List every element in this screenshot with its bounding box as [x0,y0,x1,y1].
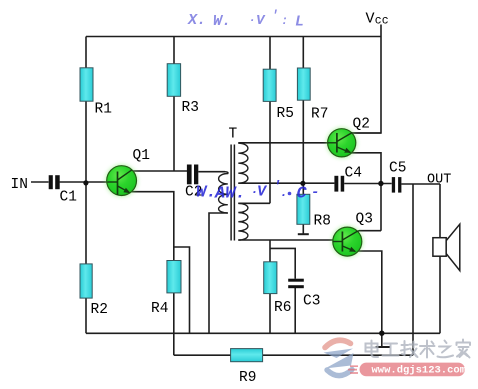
transistor Q1 [106,165,138,197]
svg-text:R3: R3 [182,100,199,116]
wire Q1 collector to C2 [131,170,187,172]
wire C3 branch from R6 column [270,248,295,278]
resistor R3 [167,64,180,97]
svg-text:V: V [256,13,266,29]
svg-text:Q1: Q1 [133,148,150,164]
wire Q3 collector to midpoint column [359,230,381,232]
wire R7 bottom to node B [302,100,304,194]
transformer T secondary lower winding [238,203,248,240]
svg-text:L: L [295,14,304,31]
svg-text:Q2: Q2 [353,117,370,133]
wire Vcc terminal stub [380,25,382,37]
wire transformer primary bottom return [209,213,228,333]
wire R6 bottom to ground rail [269,294,271,334]
svg-text:R1: R1 [95,102,112,118]
svg-text:OUT: OUT [427,173,451,188]
wire C2 to transformer primary top [198,171,225,173]
wire R9 line left segment [174,354,231,356]
wire secondary center tap to C4 [238,182,334,184]
svg-text:www.dgjs123.com: www.dgjs123.com [372,365,467,377]
svg-text:AW.: AW. [214,185,246,204]
svg-text:W.: W. [213,13,231,30]
wire speaker column top [439,184,441,238]
transformer T secondary upper winding [238,143,248,183]
wire Q2 emitter to midpoint column [351,153,381,231]
node C output midpoint junction dot [378,181,383,186]
capacitor C1 [49,175,60,189]
capacitor C4 [334,176,344,192]
wire secondary top to Q2 base [238,142,327,144]
wire ground rail bottom [86,332,440,334]
watermark chinese text dian gong ji shu zhi jia [366,340,471,358]
resistor R4 [167,261,181,293]
svg-text:R9: R9 [239,370,256,386]
svg-text:-: - [311,185,319,201]
svg-text:V: V [257,184,268,201]
svg-text:V: V [366,11,375,28]
svg-text:R6: R6 [274,300,291,316]
resistor R6 [264,262,277,294]
wire Vcc column to Q2 collector [352,37,381,134]
node B center-tap R8 junction dot [300,181,305,186]
wire Q3 emitter to ground rail dot [356,251,382,333]
capacitor C2 [187,165,198,185]
wire Q2 collector horizontal [352,132,382,134]
ground bar under rail dot [376,346,390,348]
wire IN terminal to C1 [31,181,49,183]
svg-text:': ' [271,8,279,23]
wire C5 to OUT terminal [401,183,440,185]
svg-text:C4: C4 [345,166,362,182]
svg-text:C1: C1 [60,190,77,206]
wire R2 bottom to ground rail [85,298,87,333]
wire C4 to C5 through output midpoint node [344,183,392,185]
wire R3 bottom to Q1 collector wire [173,96,175,171]
watermark blue fragments top row [187,8,304,31]
svg-text:C3: C3 [303,294,320,310]
svg-text:T: T [229,127,238,143]
capacitor C3 [288,279,304,289]
wire R5 bottom down to lower coil wire [269,101,271,203]
resistor R7 [297,68,310,100]
watermark blue fragments center [196,179,319,204]
wire left column rail to R1 [85,37,87,69]
svg-text:W.: W. [196,184,216,203]
wire R4 bottom to ground rail [173,293,175,333]
label Vcc [366,11,389,28]
svg-text:R5: R5 [277,106,294,122]
wire C3 bottom to ground rail [294,288,296,333]
wire R3 column from rail [173,37,175,65]
wire R9 line right segment [263,354,413,356]
watermark red capsule www.dgjs123.com [348,363,466,377]
wire Q1 emitter run [129,192,174,261]
wire R7 top column [302,37,304,69]
transistor Q2 [327,128,357,158]
speaker [433,224,460,270]
wire R5 top column [269,37,271,70]
wire feedback column OUT to R9 [412,184,414,355]
wire lower coil top to R5 column [238,202,270,204]
svg-text:cc: cc [375,15,389,28]
node A input junction dot [83,180,88,185]
resistor R9 [231,349,263,362]
resistor R5 [263,69,276,101]
svg-text:C5: C5 [389,161,406,177]
wire ground stub under rail dot [381,333,383,346]
resistor R1 [80,68,93,101]
wire secondary bottom to Q3 base [238,239,333,241]
transistor Q3 [332,226,363,257]
transformer T core [231,145,234,241]
svg-text:R4: R4 [151,301,168,317]
svg-text:.: . [280,185,288,200]
svg-text:R8: R8 [314,214,331,230]
svg-text:IN: IN [11,177,28,193]
svg-text::: : [281,14,288,28]
watermark logo swirl bottom right [324,340,354,375]
node D ground rail junction dot [379,331,384,336]
svg-text:Q3: Q3 [356,212,373,228]
capacitor C5 [392,177,402,193]
wire C1 to Q1 base through node A [60,181,108,183]
resistor R2 [80,264,92,298]
wire R1 bottom to R2 top through input node [85,101,87,264]
wire R6 column from Q3 base wire [269,240,271,262]
ground bar under R8 [298,233,309,235]
wire emitter step branch to ground rail [174,247,190,333]
svg-text:R7: R7 [311,107,328,123]
transformer T primary winding [219,172,228,213]
wire speaker column bottom [439,256,441,333]
watermark blue dot [288,192,292,196]
wire top supply rail [86,36,381,38]
wire R4 node down to feedback line R9 [173,333,175,355]
wire R8 bottom lead to ground symbol [302,224,304,234]
resistor R8 [297,194,310,224]
svg-text:X.: X. [187,12,206,29]
svg-text:R2: R2 [91,302,108,318]
svg-text:C: C [297,185,308,204]
